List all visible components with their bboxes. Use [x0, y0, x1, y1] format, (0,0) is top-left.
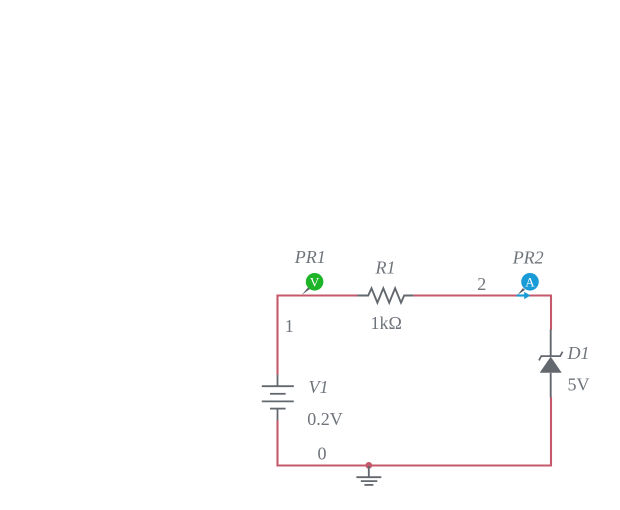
probe PR2 (current probe): [517, 273, 539, 299]
svg-text:0: 0: [318, 444, 327, 464]
zener diode D1: [539, 330, 563, 398]
wire top left segment (node 1 to R1): [278, 296, 358, 297]
junction dot at ground node: [365, 462, 372, 469]
svg-text:0.2V: 0.2V: [307, 409, 343, 429]
wire bottom segment (node 0): [277, 464, 553, 466]
resistor R1: [357, 288, 413, 302]
svg-text:PR2: PR2: [512, 247, 544, 267]
svg-text:V1: V1: [309, 377, 329, 397]
svg-text:V: V: [310, 274, 320, 289]
probe PR1 (voltage probe): [302, 273, 324, 295]
ground: [356, 466, 381, 485]
wire right lower segment (D1 to bottom corner): [550, 397, 552, 467]
svg-text:R1: R1: [375, 258, 396, 278]
wire left lower segment (V1 to bottom corner): [276, 420, 278, 467]
svg-text:1: 1: [285, 316, 294, 336]
svg-text:D1: D1: [567, 343, 590, 363]
wire right upper segment (corner to D1): [550, 295, 552, 331]
svg-text:PR1: PR1: [294, 247, 326, 267]
wire left upper segment (node 1 vertical to V1): [276, 295, 278, 375]
svg-text:2: 2: [477, 274, 486, 294]
wire top right segment (R1 to node 2 corner): [413, 294, 551, 296]
voltage source V1 (battery): [262, 375, 294, 421]
svg-text:5V: 5V: [568, 375, 590, 395]
svg-text:A: A: [525, 274, 535, 289]
svg-text:1kΩ: 1kΩ: [371, 313, 402, 333]
